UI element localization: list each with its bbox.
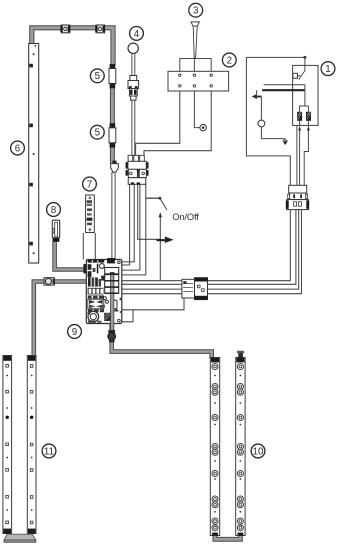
corner screws bbox=[118, 261, 121, 264]
wire relay to coil bracket bbox=[304, 85, 306, 106]
wire from item4 connector down into manifold port a bbox=[122, 184, 130, 265]
wire item2 left leg to item4 connector bbox=[136, 91, 180, 155]
svg-text:5: 5 bbox=[95, 71, 101, 82]
tube segment below second item5 connector bbox=[110, 143, 115, 163]
item 11 bottom tray bbox=[4, 534, 36, 542]
valve bank separators over tube bbox=[105, 274, 119, 293]
manifold plate item 9 bbox=[86, 260, 122, 324]
wire relay feed bbox=[304, 57, 306, 70]
dark cartridge cluster bbox=[88, 277, 91, 286]
inline clamp fitting on top tube right bbox=[95, 25, 105, 33]
terminals bottom row bbox=[179, 85, 181, 87]
wire tube top run from bar 6 to item5 column bbox=[32, 28, 113, 66]
tube from manifold bottom to item 10 left bar bbox=[112, 276, 212, 359]
harness connector on right bundle bbox=[286, 185, 309, 209]
wire right coil lead down with jog bbox=[304, 121, 308, 186]
balloon 5 bbox=[90, 69, 104, 83]
arrow up toward switch bbox=[159, 212, 163, 217]
coil L2 bbox=[306, 112, 311, 121]
balloon 8 bbox=[47, 203, 61, 217]
wire connector leg e to switch and manifold port d bbox=[122, 184, 160, 275]
fuel filter item 7 strip bbox=[86, 195, 95, 233]
manifold small parts left column bbox=[88, 264, 92, 270]
svg-text:9: 9 bbox=[72, 327, 77, 338]
thin hose from fitting down to manifold bbox=[112, 172, 115, 259]
junction dot at switch bbox=[159, 197, 162, 200]
manifold top strip bbox=[88, 260, 105, 263]
drain triangle bbox=[283, 141, 288, 145]
wire bundle line 2 bbox=[122, 200, 296, 284]
ball item 4 bbox=[128, 43, 138, 53]
harness connector on middle bundle bbox=[182, 278, 208, 300]
solenoid valve bank V1 bbox=[105, 268, 119, 274]
tube U connecting item 10 bars at bottom bbox=[215, 535, 241, 539]
coil L1 bbox=[297, 112, 302, 121]
antenna item 3 bbox=[191, 22, 199, 58]
item 10 right bar top fitting bbox=[237, 351, 244, 358]
tube segment visible through manifold bbox=[110, 274, 114, 330]
wire from item4 connector down into manifold port b bbox=[122, 184, 134, 262]
cable connector item 4 bottom bbox=[126, 155, 149, 184]
tube from item 8 to manifold bbox=[55, 242, 87, 270]
wire to drain symbol bbox=[261, 127, 287, 140]
solenoid valve bank V3 bbox=[105, 281, 119, 287]
wire item7 strip left lead bbox=[82, 233, 84, 260]
sensor circle bbox=[258, 120, 265, 127]
inline fitting on lower-left tube bbox=[44, 278, 55, 286]
wire outer loop from item1 top-left down to bundle line 1 into manifold bbox=[122, 57, 305, 280]
svg-text:On/Off: On/Off bbox=[172, 212, 199, 222]
rod lower section bbox=[132, 100, 135, 155]
svg-text:1: 1 bbox=[325, 64, 330, 75]
balloon 5 bbox=[90, 125, 104, 139]
coupler small block bbox=[101, 276, 104, 281]
small rect mid right bbox=[113, 300, 117, 309]
fuse arrow pointing left bbox=[252, 90, 262, 99]
wire switch blade bbox=[160, 199, 167, 210]
bottom strip details bbox=[88, 320, 96, 322]
wire left branch down bbox=[260, 97, 262, 121]
wire bracket above item 2 bbox=[180, 59, 211, 72]
quick connector item 5 lower bbox=[109, 123, 116, 147]
wire from item4 connector down into manifold port c bbox=[122, 184, 140, 270]
balloon 11 bbox=[42, 444, 56, 458]
item 11 left bar bbox=[3, 356, 12, 534]
control box item 2 bbox=[168, 71, 229, 91]
wire inner box lead down bbox=[296, 125, 298, 185]
wire from manifold y310 to middle connector bbox=[122, 298, 184, 310]
wire item7 strip right lead bbox=[94, 233, 96, 260]
item 10 right bar bbox=[236, 358, 245, 536]
coil bracket bbox=[300, 106, 309, 112]
round fitting on manifold bottom tube bbox=[108, 330, 116, 342]
svg-text:10: 10 bbox=[253, 446, 264, 457]
angled fitting detail bbox=[114, 309, 118, 311]
right edge tick bbox=[120, 298, 122, 300]
relay contact square bbox=[293, 73, 298, 78]
dark block bottom bbox=[104, 313, 111, 321]
node coil lead dots bbox=[298, 128, 301, 131]
relay blade bbox=[298, 71, 305, 80]
balloon 3 bbox=[189, 3, 203, 17]
quick connector item 5 upper bbox=[109, 64, 116, 88]
wire bundle line 4 bbox=[122, 200, 302, 294]
tube from manifold left to item 11 right bar bbox=[34, 282, 87, 357]
textured bar upper bbox=[88, 295, 104, 298]
wire left coil lead down bbox=[299, 121, 301, 186]
rail item 6 bbox=[29, 44, 39, 264]
pump circle bbox=[88, 311, 99, 322]
hose end fitting below item5 column bbox=[111, 161, 119, 173]
wire thick bus bbox=[262, 89, 305, 91]
wire switch feed from item2 right leg bbox=[146, 197, 160, 199]
svg-text:4: 4 bbox=[134, 29, 140, 40]
tube segment between item5 connectors bbox=[110, 87, 115, 124]
vertical bar detail bbox=[97, 264, 99, 274]
svg-text:5: 5 bbox=[95, 128, 101, 139]
wire below switch through arrow junction to bundle bbox=[159, 215, 161, 281]
balloon 4 bbox=[130, 27, 144, 41]
dark fitting manifold left upper port bbox=[83, 264, 89, 273]
hose terminal block top right bbox=[107, 258, 115, 263]
svg-text:11: 11 bbox=[44, 446, 54, 457]
item 10 left bar bbox=[210, 358, 219, 536]
slot row block bbox=[88, 288, 104, 295]
svg-text:3: 3 bbox=[193, 6, 199, 17]
terminals top row bbox=[179, 74, 181, 76]
wire item2 middle leg to ring terminal bbox=[194, 91, 200, 128]
svg-text:8: 8 bbox=[51, 205, 57, 216]
wire step from manifold lower right bbox=[122, 310, 133, 322]
valve body on item 4 bbox=[128, 76, 139, 101]
solenoid valve bank V4 bbox=[105, 287, 119, 293]
wire thin bus bbox=[264, 84, 305, 86]
node junction top of relay feed bbox=[303, 56, 306, 59]
balloon 9 bbox=[68, 325, 82, 339]
rod upper section bbox=[132, 54, 135, 76]
balloon 10 bbox=[251, 444, 265, 458]
textured bar lower bbox=[88, 309, 104, 312]
svg-text:7: 7 bbox=[87, 179, 92, 190]
balloon 2 bbox=[222, 53, 236, 67]
screw hole big bbox=[100, 264, 105, 269]
inline clamp fitting on top tube left bbox=[60, 25, 70, 33]
ring terminal bbox=[200, 124, 206, 130]
plug item 8 bbox=[52, 220, 59, 242]
thick flow arrow pointing right bbox=[157, 237, 174, 244]
item 11 right bar bbox=[27, 356, 36, 534]
svg-text:2: 2 bbox=[227, 55, 232, 66]
control unit U1 inner box bbox=[293, 65, 318, 125]
dark fitting manifold left lower port bbox=[87, 276, 92, 286]
wire bundle line 3 bbox=[122, 200, 299, 289]
balloon 1 bbox=[321, 62, 335, 76]
wire item2 right leg into connector bbox=[144, 91, 211, 155]
balloon 7 bbox=[83, 177, 97, 191]
small circles detail bbox=[103, 297, 106, 300]
svg-text:6: 6 bbox=[15, 143, 21, 154]
solenoid valve bank V2 bbox=[105, 275, 119, 281]
wire from item4 connector down to arrow line bbox=[138, 184, 161, 239]
check valve box with wedges bbox=[88, 299, 104, 309]
balloon 6 bbox=[11, 141, 25, 155]
